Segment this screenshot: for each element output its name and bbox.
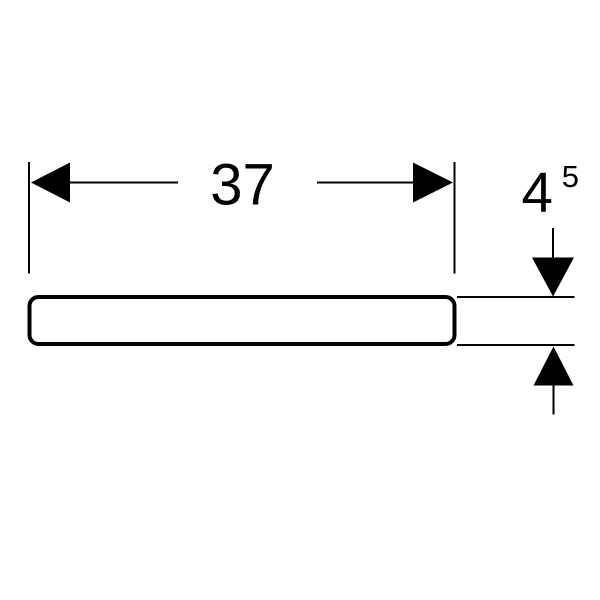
arrowhead right <box>413 163 453 203</box>
svg-text:5: 5 <box>562 159 579 194</box>
arrowhead up (thickness) <box>534 347 574 386</box>
extension line left (width 37) <box>28 162 30 274</box>
svg-text:4: 4 <box>522 161 553 224</box>
leader line lower <box>553 385 555 415</box>
arrowhead down (thickness) <box>532 258 574 297</box>
leader line upper <box>552 228 554 259</box>
svg-text:37: 37 <box>210 153 275 218</box>
plate (product side view) <box>30 297 455 344</box>
extension line top (thickness 4.5) <box>457 296 575 298</box>
dimension line right segment <box>317 182 415 184</box>
dimension line left segment <box>68 182 178 184</box>
extension line right (width 37) <box>454 162 456 274</box>
arrowhead left <box>31 163 70 203</box>
extension line bottom (thickness 4.5) <box>457 344 575 346</box>
